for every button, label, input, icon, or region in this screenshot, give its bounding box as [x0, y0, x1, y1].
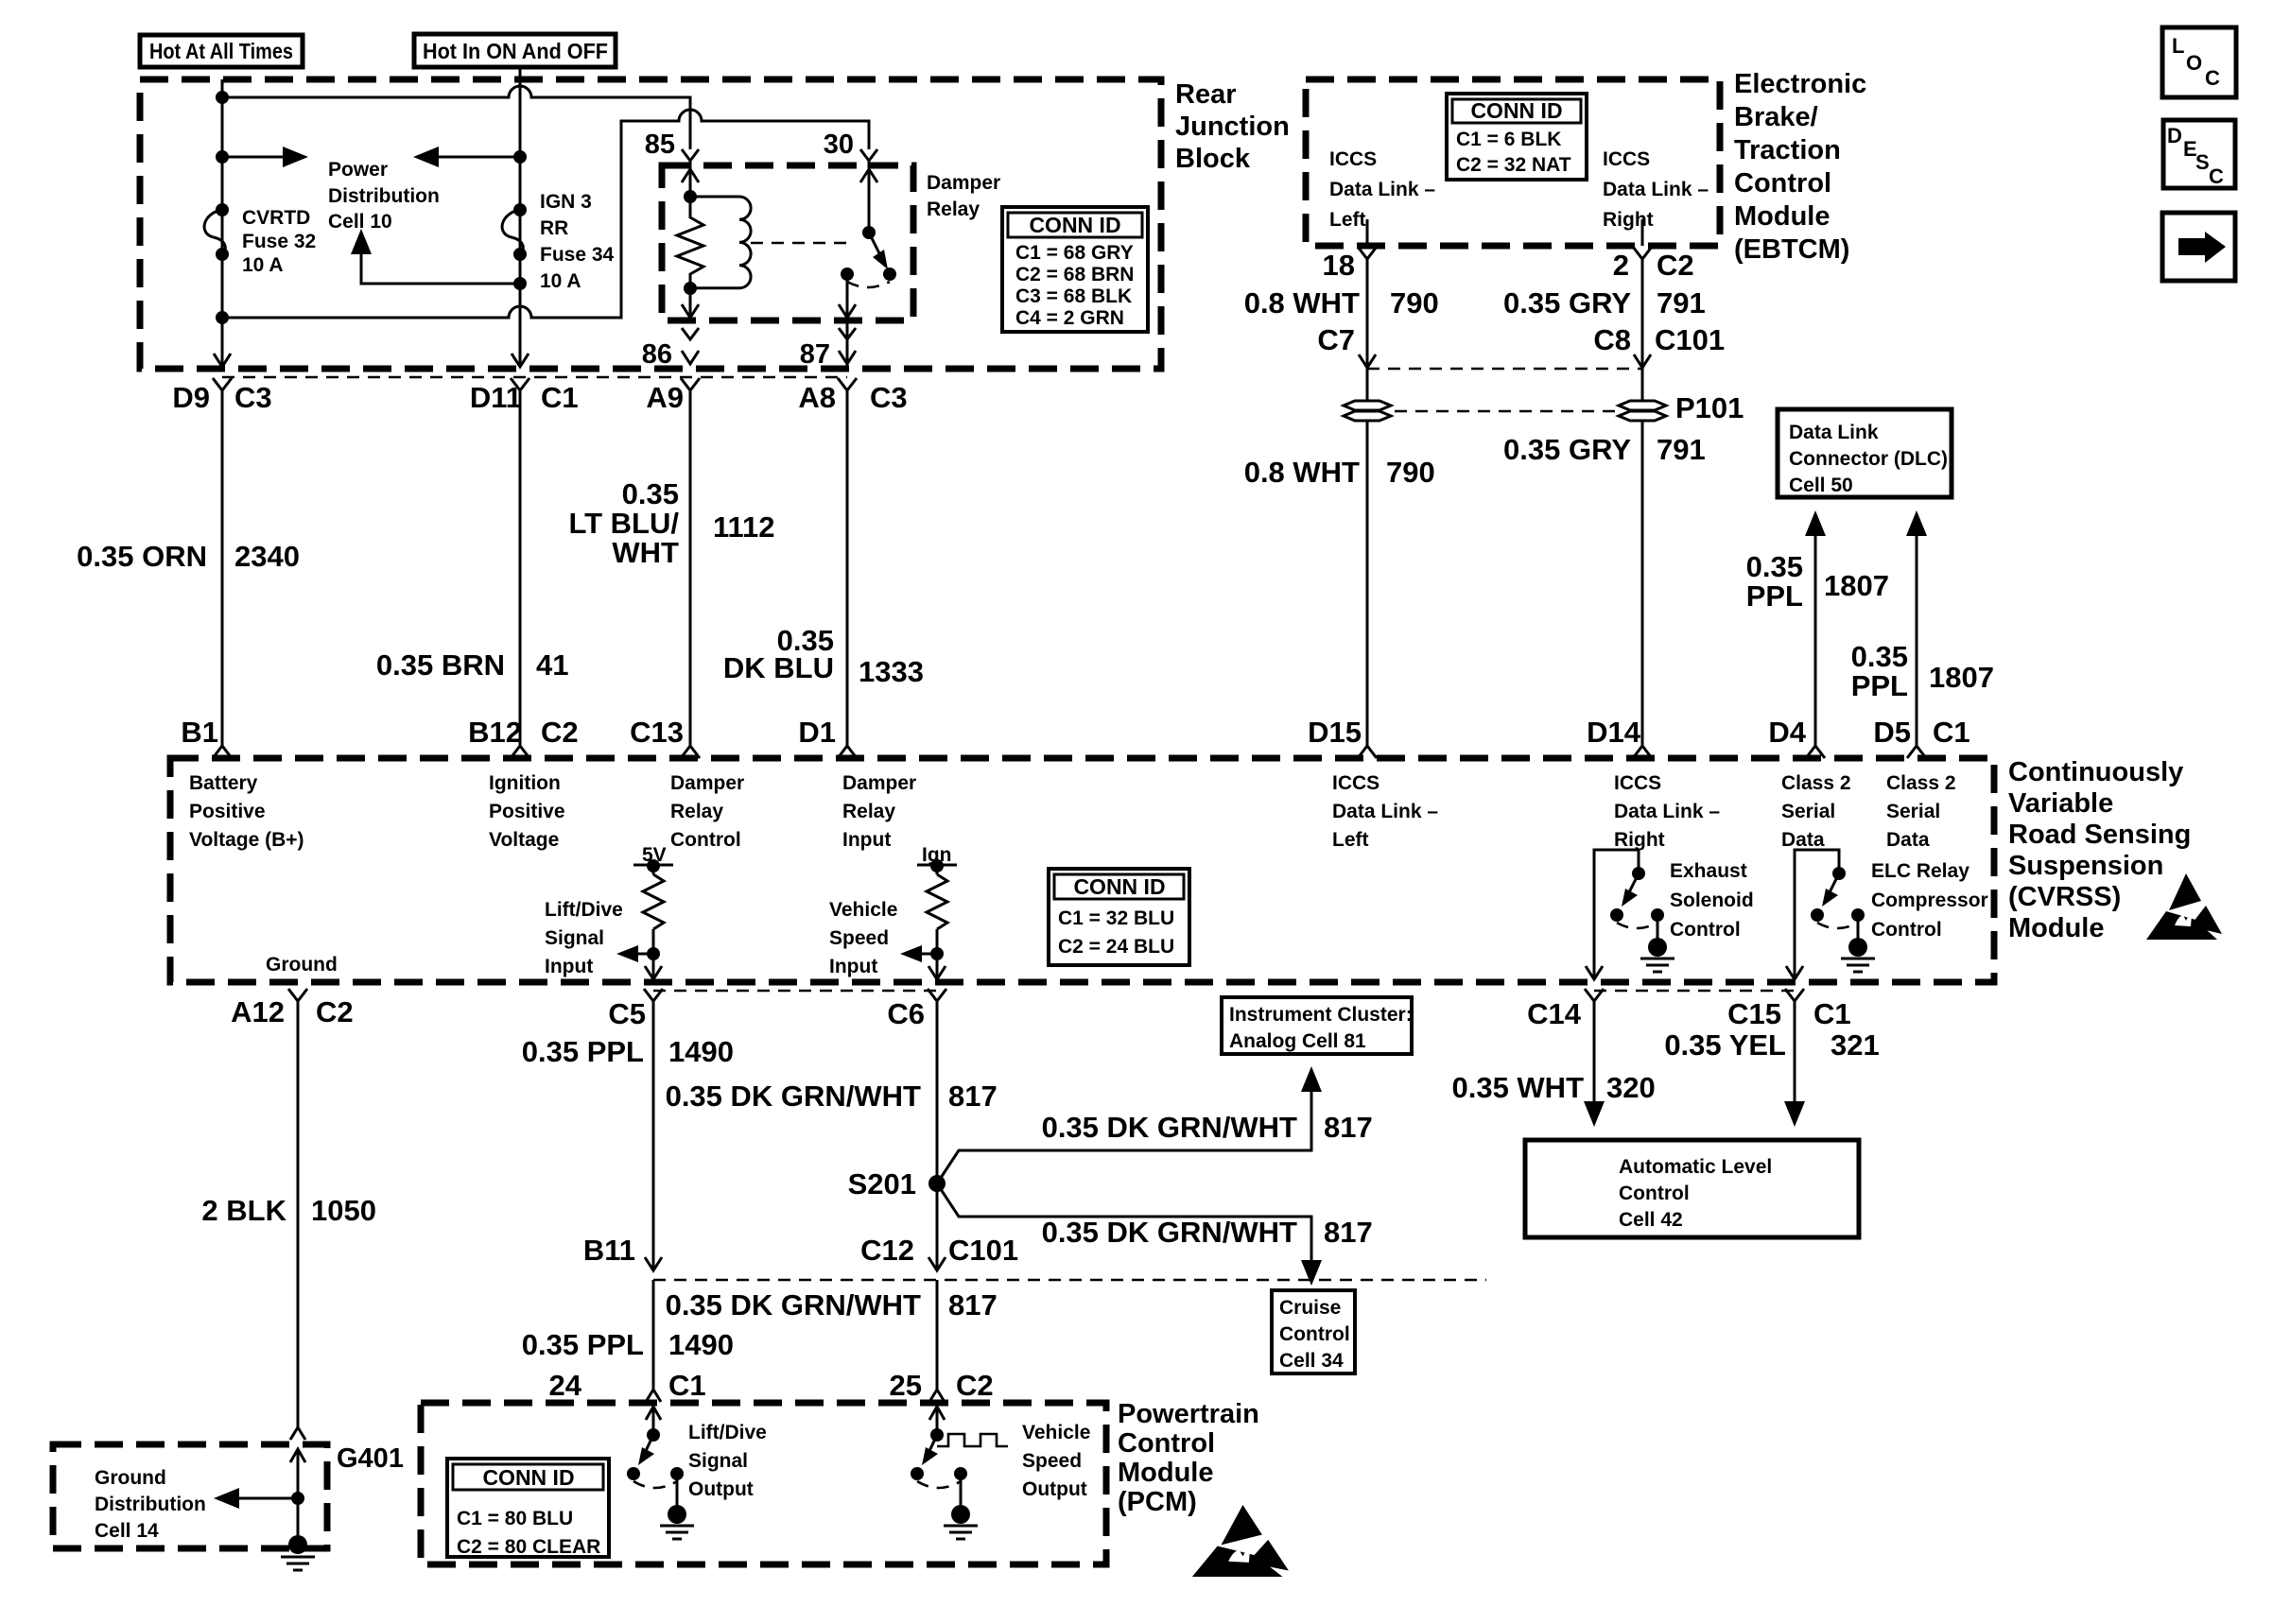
svg-text:Serial: Serial — [1886, 801, 1940, 822]
svg-text:86: 86 — [642, 339, 672, 370]
lift/dive switch pivot — [647, 1428, 660, 1442]
svg-text:Left: Left — [1332, 829, 1369, 851]
ELC switch stationary contact — [1851, 908, 1865, 922]
svg-text:Right: Right — [1603, 209, 1654, 231]
connector A at CVRSS entry (D1) — [838, 746, 857, 758]
connector Y below relay (pin86) — [682, 328, 699, 339]
svg-text:A12: A12 — [231, 995, 285, 1028]
arrow up to Power Distribution Cell 10 — [351, 229, 520, 284]
svg-text:LT BLU/: LT BLU/ — [568, 507, 679, 540]
arrow chevron up at G401 entry — [290, 1449, 305, 1462]
relay resistor — [677, 217, 703, 274]
arrow chevron up inside PCM (vss) — [929, 1407, 945, 1420]
svg-text:C1: C1 — [668, 1369, 706, 1402]
wire stub: EBTCM pin 2 — [1641, 219, 1644, 246]
svg-text:Data Link: Data Link — [1789, 422, 1879, 443]
svg-text:CONN ID: CONN ID — [482, 1465, 574, 1490]
svg-text:0.35: 0.35 — [622, 477, 679, 510]
wire: ICCS data link left 790 — [1366, 259, 1369, 747]
svg-text:Fuse 34: Fuse 34 — [540, 244, 615, 266]
svg-text:C5: C5 — [608, 997, 646, 1030]
arrow reference box — [2162, 213, 2235, 281]
svg-text:ICCS: ICCS — [1614, 772, 1661, 794]
ELC switch armature — [1822, 873, 1839, 907]
wire: battery B+ run to CVRSS — [221, 390, 224, 747]
svg-text:A8: A8 — [798, 381, 836, 414]
connector V (D11|C1) — [511, 378, 529, 390]
svg-text:Junction: Junction — [1175, 112, 1290, 142]
junction: line1 tap on battery wire — [216, 91, 229, 104]
svg-text:Cell 50: Cell 50 — [1789, 475, 1853, 496]
arrow chevron at C15 exit — [1786, 966, 1803, 979]
svg-text:Right: Right — [1614, 829, 1665, 851]
svg-text:Module: Module — [1734, 201, 1831, 232]
svg-text:790: 790 — [1390, 286, 1439, 320]
svg-text:Control: Control — [1871, 919, 1942, 941]
svg-text:10 A: 10 A — [540, 270, 581, 292]
harness connector dashed line below RJB — [222, 376, 847, 379]
Automatic Level Control box — [1525, 1140, 1859, 1237]
svg-text:817: 817 — [1324, 1111, 1373, 1144]
label box: Hot In ON And OFF — [414, 34, 616, 67]
vss switch stationary contact — [954, 1467, 967, 1480]
svg-text:ICCS: ICCS — [1329, 148, 1377, 170]
svg-text:0.35 GRY: 0.35 GRY — [1503, 286, 1631, 320]
svg-text:1490: 1490 — [668, 1328, 734, 1361]
CONN ID table (EBTCM) — [1447, 94, 1587, 180]
ELC switch dashed throw arc — [1817, 923, 1858, 928]
junction: coil bottom — [684, 282, 697, 295]
svg-text:2: 2 — [1613, 249, 1629, 282]
svg-text:25: 25 — [890, 1369, 922, 1402]
svg-text:817: 817 — [948, 1080, 998, 1113]
svg-text:D15: D15 — [1308, 716, 1362, 749]
svg-text:C4 = 2 GRN: C4 = 2 GRN — [1015, 307, 1124, 329]
relay switch pivot — [862, 226, 876, 239]
svg-text:Cell 14: Cell 14 — [95, 1520, 159, 1542]
svg-text:Module: Module — [1118, 1458, 1214, 1488]
svg-text:C: C — [2205, 66, 2220, 90]
arrow chevron at C14 exit — [1586, 966, 1603, 979]
svg-text:(EBTCM): (EBTCM) — [1734, 234, 1849, 265]
svg-text:PPL: PPL — [1851, 669, 1908, 702]
connector A at CVRSS entry (D5|C1) — [1907, 746, 1926, 758]
svg-text:87: 87 — [800, 339, 830, 370]
svg-text:Ignition: Ignition — [489, 772, 561, 794]
wire: damper relay input run to CVRSS — [846, 390, 849, 747]
svg-text:Control: Control — [1279, 1323, 1350, 1345]
svg-text:L: L — [2172, 34, 2184, 58]
svg-text:Control: Control — [1734, 168, 1831, 199]
junction: coil top — [684, 190, 697, 203]
exhaust solenoid driver wire (C14) — [1594, 850, 1639, 979]
wire: lift/dive signal 1490 lower run — [652, 1280, 655, 1390]
wire: exhaust solenoid 320 to ALC — [1584, 1001, 1605, 1127]
wire: ignition run to CVRSS — [519, 390, 522, 747]
svg-text:1333: 1333 — [859, 655, 924, 688]
svg-text:10 A: 10 A — [242, 254, 284, 276]
svg-text:D11: D11 — [470, 381, 522, 414]
svg-text:C7: C7 — [1317, 323, 1355, 356]
wire: battery feed vertical (fuse 32 branch) — [221, 79, 224, 367]
svg-text:PPL: PPL — [1746, 579, 1803, 613]
connector V (D9|C3) — [213, 378, 232, 390]
arrow chevron at B11 — [645, 1257, 662, 1270]
label box: Hot At All Times — [140, 35, 303, 67]
LOC reference box — [2162, 27, 2236, 97]
CONN ID table (Rear Junction Block) — [1002, 207, 1148, 332]
connector plane dashed line C101 (EBTCM side) — [1367, 368, 1642, 371]
svg-text:Suspension: Suspension — [2008, 851, 2163, 881]
arrow chevron at C6 exit — [928, 966, 946, 979]
svg-text:791: 791 — [1657, 286, 1706, 320]
svg-text:Control: Control — [1619, 1183, 1690, 1204]
svg-text:C1: C1 — [1813, 997, 1851, 1030]
svg-text:Serial: Serial — [1781, 801, 1835, 822]
arrow to Power Distribution (left) — [413, 147, 520, 167]
svg-text:Brake/: Brake/ — [1734, 102, 1818, 132]
splice S201 — [928, 1175, 946, 1192]
svg-text:C2 = 24 BLU: C2 = 24 BLU — [1058, 936, 1174, 958]
connector V (C5) — [644, 989, 663, 1001]
svg-text:Class 2: Class 2 — [1781, 772, 1851, 794]
svg-text:C2: C2 — [316, 995, 354, 1028]
svg-text:1807: 1807 — [1929, 661, 1994, 694]
relay coil branch wire — [689, 165, 692, 218]
connector A at CVRSS entry (C13) — [681, 746, 700, 758]
svg-text:0.35 DK GRN/WHT: 0.35 DK GRN/WHT — [666, 1080, 921, 1113]
in-line connector P101 right half — [1619, 401, 1666, 421]
svg-text:Vehicle: Vehicle — [829, 899, 897, 921]
svg-text:P101: P101 — [1675, 391, 1744, 424]
lift/dive switch dashed throw arc — [633, 1481, 677, 1488]
svg-text:Positive: Positive — [489, 801, 565, 822]
svg-text:Block: Block — [1175, 144, 1251, 174]
svg-text:Electronic: Electronic — [1734, 69, 1866, 99]
svg-text:0.35 DK GRN/WHT: 0.35 DK GRN/WHT — [666, 1288, 921, 1322]
svg-text:0.35 PPL: 0.35 PPL — [522, 1035, 644, 1068]
arrow chevron up inside PCM (lift/dive) — [646, 1407, 661, 1420]
connector V (C15|C1) — [1785, 989, 1804, 1001]
svg-text:RR: RR — [540, 217, 568, 239]
svg-text:WHT: WHT — [612, 536, 679, 569]
connector A at CVRSS entry (D4) — [1806, 746, 1825, 758]
svg-text:Voltage (B+): Voltage (B+) — [189, 829, 304, 851]
ground symbol (exhaust solenoid driver) — [1640, 915, 1674, 972]
svg-text:D: D — [2167, 124, 2182, 147]
ESD symbol (CVRSS) — [2146, 873, 2222, 940]
vehicle speed pull-up resistor R-VS — [917, 859, 957, 979]
svg-text:DK BLU: DK BLU — [723, 651, 834, 684]
svg-text:0.35 DK GRN/WHT: 0.35 DK GRN/WHT — [1042, 1111, 1297, 1144]
svg-text:Control: Control — [1670, 919, 1741, 941]
ESD symbol (PCM) — [1192, 1505, 1289, 1577]
svg-text:Exhaust: Exhaust — [1670, 860, 1747, 882]
svg-text:ICCS: ICCS — [1332, 772, 1379, 794]
svg-text:Automatic Level: Automatic Level — [1619, 1156, 1772, 1178]
svg-text:24: 24 — [549, 1369, 582, 1402]
svg-text:Fuse 32: Fuse 32 — [242, 231, 316, 252]
svg-text:C13: C13 — [630, 716, 684, 749]
arrow chevron at RJB exit (pin86) — [682, 351, 699, 364]
svg-text:Data: Data — [1781, 829, 1825, 851]
svg-text:C1 = 6 BLK: C1 = 6 BLK — [1456, 129, 1561, 150]
arrow chevron up inside relay (pin85) — [682, 169, 699, 182]
svg-text:B1: B1 — [181, 716, 218, 749]
svg-text:30: 30 — [824, 130, 854, 160]
wire: S201 branch to instrument cluster — [937, 1066, 1322, 1183]
arrow chevron at C8 — [1634, 354, 1651, 368]
svg-text:A9: A9 — [646, 381, 684, 414]
svg-text:Cell 34: Cell 34 — [1279, 1350, 1344, 1372]
svg-text:C1 = 68 GRY: C1 = 68 GRY — [1015, 242, 1134, 264]
Rear Junction Block dashed box — [140, 79, 1161, 369]
svg-text:Speed: Speed — [1022, 1450, 1082, 1472]
ground symbol (vss output) — [944, 1474, 978, 1539]
ELC switch moving contact — [1811, 908, 1824, 922]
wire: lift/dive signal 1490 upper run — [652, 1001, 655, 1270]
arrow chevron at C12 — [928, 1257, 946, 1270]
svg-text:Input: Input — [545, 956, 593, 977]
Data Link Connector (DLC) box — [1778, 409, 1952, 497]
svg-text:Solenoid: Solenoid — [1670, 890, 1754, 911]
relay switch dashed throw arc — [847, 282, 890, 287]
svg-text:Instrument Cluster:: Instrument Cluster: — [1229, 1004, 1413, 1026]
arrow to Ground Distribution (left) — [214, 1488, 298, 1509]
svg-text:C101: C101 — [1655, 323, 1725, 356]
svg-text:Lift/Dive: Lift/Dive — [688, 1422, 767, 1443]
arrow chevron at RJB exit (pin87) — [839, 351, 856, 364]
svg-text:C3: C3 — [870, 381, 908, 414]
wire: ELC relay 321 to ALC — [1784, 1001, 1805, 1127]
svg-text:Powertrain: Powertrain — [1118, 1399, 1259, 1429]
connector V (C6) — [928, 989, 946, 1001]
dashed pair link at P101 — [1395, 410, 1615, 413]
vss switch armature — [922, 1435, 938, 1465]
svg-text:321: 321 — [1831, 1028, 1880, 1062]
svg-text:0.35: 0.35 — [1851, 640, 1908, 673]
svg-text:C12: C12 — [860, 1234, 914, 1267]
svg-text:Traction: Traction — [1734, 135, 1841, 165]
svg-text:0.35: 0.35 — [1746, 550, 1803, 583]
connector Y below relay (pin87) — [839, 328, 856, 339]
vss switch pivot — [930, 1428, 944, 1442]
exhaust switch moving contact — [1610, 908, 1623, 922]
arrow: Lift/Dive Signal Input (left) — [616, 945, 653, 962]
svg-text:Distribution: Distribution — [95, 1494, 206, 1515]
connector Y at pin 85 — [682, 149, 699, 166]
svg-text:C3: C3 — [234, 381, 272, 414]
lift/dive pull-up resistor R-LD — [633, 859, 673, 979]
svg-text:S201: S201 — [848, 1167, 916, 1201]
svg-text:817: 817 — [1324, 1216, 1373, 1249]
in-line connector P101 left half — [1344, 401, 1391, 421]
connector A at CVRSS entry (B12|C2) — [511, 746, 529, 758]
svg-text:0.35 GRY: 0.35 GRY — [1503, 433, 1631, 466]
svg-text:CONN ID: CONN ID — [1029, 213, 1120, 237]
relay coil L1 — [690, 197, 751, 288]
exhaust switch stationary contact — [1651, 908, 1664, 922]
connector Y at pin 30 — [860, 149, 877, 166]
connector V (pin 2|C2) — [1633, 247, 1652, 259]
svg-text:Relay: Relay — [670, 801, 723, 822]
ground symbol (ELC relay driver) — [1841, 915, 1875, 972]
relay switch stationary contact — [841, 268, 854, 281]
svg-text:1490: 1490 — [668, 1035, 734, 1068]
arrow chevron at C5 exit — [645, 966, 662, 979]
svg-text:B12: B12 — [468, 716, 522, 749]
arrow chevron at C7 — [1359, 354, 1376, 368]
svg-text:C3 = 68 BLK: C3 = 68 BLK — [1015, 285, 1132, 307]
svg-text:Data Link –: Data Link – — [1329, 179, 1435, 200]
connector A at G401 — [290, 1427, 305, 1440]
svg-text:Output: Output — [688, 1478, 754, 1500]
svg-text:Input: Input — [829, 956, 877, 977]
svg-text:Rear: Rear — [1175, 79, 1237, 110]
wire: ICCS data link right 791 — [1641, 259, 1644, 747]
svg-text:0.8 WHT: 0.8 WHT — [1244, 286, 1360, 320]
junction: vehicle speed node — [930, 947, 944, 960]
svg-text:Hot In ON And OFF: Hot In ON And OFF — [423, 39, 608, 63]
svg-text:Signal: Signal — [545, 927, 604, 949]
svg-text:1807: 1807 — [1824, 569, 1889, 602]
ground wire inside G401 — [297, 1449, 300, 1539]
relay switch common wire (pin30) — [868, 165, 871, 233]
connector plane dashed line C101 (PCM side) — [653, 1279, 1486, 1282]
connector A at CVRSS entry (D14) — [1633, 746, 1652, 758]
ELC relay driver wire (C15) — [1795, 850, 1839, 979]
svg-text:0.35 WHT: 0.35 WHT — [1451, 1071, 1584, 1104]
svg-text:C2: C2 — [956, 1369, 994, 1402]
svg-text:D5: D5 — [1873, 716, 1911, 749]
svg-text:Connector (DLC): Connector (DLC) — [1789, 448, 1948, 470]
svg-text:IGN 3: IGN 3 — [540, 191, 592, 213]
wire: vehicle speed 817 upper run — [936, 1001, 939, 1270]
lift/dive switch armature — [638, 1435, 654, 1465]
vehicle speed output switch wire — [936, 1403, 939, 1435]
svg-text:Compressor: Compressor — [1871, 890, 1988, 911]
fuse F32 (CVRTD Fuse 32 10A) — [204, 203, 229, 261]
svg-text:Hot At All Times: Hot At All Times — [149, 39, 293, 63]
relay switch moving contact — [883, 268, 896, 281]
svg-text:1050: 1050 — [311, 1194, 376, 1227]
connector A at CVRSS entry (D15) — [1358, 746, 1377, 758]
connector V (A8|C3) — [838, 378, 857, 390]
arrow chevron up inside relay (pin30) — [860, 169, 877, 182]
svg-text:Road Sensing: Road Sensing — [2008, 820, 2191, 850]
Damper Relay dashed box — [662, 165, 913, 320]
svg-text:C1 = 32 BLU: C1 = 32 BLU — [1058, 907, 1174, 929]
svg-text:0.35 DK GRN/WHT: 0.35 DK GRN/WHT — [1042, 1216, 1297, 1249]
svg-text:Analog Cell 81: Analog Cell 81 — [1229, 1030, 1366, 1052]
svg-text:(PCM): (PCM) — [1118, 1487, 1197, 1517]
connector V (A12|C2) — [288, 989, 307, 1001]
square wave symbol — [937, 1434, 1008, 1446]
svg-text:C2 = 80 CLEAR: C2 = 80 CLEAR — [457, 1536, 600, 1558]
EBTCM dashed box — [1306, 79, 1720, 246]
svg-text:C14: C14 — [1527, 997, 1582, 1030]
svg-text:CVRTD: CVRTD — [242, 207, 310, 229]
svg-text:Data Link –: Data Link – — [1332, 801, 1438, 822]
svg-text:Cruise: Cruise — [1279, 1297, 1341, 1319]
harness connector dashed line below CVRSS (right) — [1594, 990, 1795, 993]
svg-text:ELC Relay: ELC Relay — [1871, 860, 1969, 882]
svg-text:C1: C1 — [541, 381, 579, 414]
svg-text:C2 = 32 NAT: C2 = 32 NAT — [1456, 154, 1571, 176]
connector V (pin 18) — [1358, 247, 1377, 259]
junction: power distribution tap on ignition wire — [513, 150, 527, 164]
svg-text:Control: Control — [670, 829, 741, 851]
PCM dashed box — [421, 1403, 1106, 1564]
svg-text:18: 18 — [1323, 249, 1355, 282]
wire: ignition feed vertical (fuse 34 branch) — [519, 67, 522, 367]
junction: lift/dive signal node — [647, 947, 660, 960]
wire: ground 1050 run to G401 — [297, 1001, 300, 1427]
relay switch armature — [869, 233, 888, 269]
svg-text:ICCS: ICCS — [1603, 148, 1650, 170]
CVRSS module dashed box — [170, 758, 1994, 982]
svg-text:C101: C101 — [948, 1234, 1018, 1267]
svg-text:41: 41 — [536, 648, 568, 682]
svg-text:0.35 BRN: 0.35 BRN — [376, 648, 505, 682]
arrow chevron down at RJB exit (D11) — [512, 354, 529, 367]
wire: class 2 serial data D5 to DLC — [1906, 510, 1927, 747]
harness connector dashed line below CVRSS (left) — [653, 990, 937, 993]
svg-text:Ground: Ground — [95, 1467, 166, 1489]
svg-text:G401: G401 — [337, 1443, 404, 1474]
svg-text:790: 790 — [1386, 456, 1435, 489]
svg-text:C15: C15 — [1727, 997, 1781, 1030]
wire: vehicle speed 817 lower run — [936, 1280, 939, 1390]
svg-text:Data Link –: Data Link – — [1603, 179, 1709, 200]
svg-text:D9: D9 — [172, 381, 210, 414]
svg-text:817: 817 — [948, 1288, 998, 1322]
exhaust switch pivot — [1632, 867, 1645, 880]
svg-text:C8: C8 — [1593, 323, 1631, 356]
svg-text:Left: Left — [1329, 209, 1366, 231]
svg-text:Continuously: Continuously — [2008, 757, 2183, 787]
lift/dive switch moving contact — [627, 1467, 640, 1480]
lift/dive switch stationary contact — [670, 1467, 684, 1480]
svg-text:Damper: Damper — [670, 772, 744, 794]
svg-text:Distribution: Distribution — [328, 185, 440, 207]
arrow chevron down at RJB exit (D9) — [214, 354, 231, 367]
connector A at CVRSS entry (B1) — [213, 746, 232, 758]
svg-text:Data Link –: Data Link – — [1614, 801, 1720, 822]
CONN ID table (PCM) — [447, 1459, 609, 1558]
vss switch moving contact — [911, 1467, 924, 1480]
svg-text:S: S — [2195, 150, 2210, 174]
arrow chevron down inside relay (pin87) — [839, 304, 856, 318]
svg-text:C: C — [2209, 164, 2224, 188]
svg-text:Relay: Relay — [927, 199, 980, 220]
svg-text:Power: Power — [328, 159, 388, 181]
svg-text:C6: C6 — [887, 997, 925, 1030]
svg-text:Input: Input — [842, 829, 891, 851]
ground symbol (lift/dive output) — [660, 1474, 694, 1539]
svg-text:Positive: Positive — [189, 801, 266, 822]
svg-text:CONN ID: CONN ID — [1073, 874, 1165, 899]
svg-text:C2: C2 — [541, 716, 579, 749]
svg-text:2340: 2340 — [234, 540, 300, 573]
wire: class 2 serial data D4 to DLC — [1805, 510, 1826, 747]
wire: line3/line2 feed from battery wire to relay pin 30 (hops ignition wire and pin85 wire) — [222, 110, 869, 318]
connector V (C14) — [1585, 989, 1604, 1001]
relay actuation dashed link — [751, 242, 854, 245]
svg-text:320: 320 — [1606, 1071, 1656, 1104]
wire: damper relay control run to CVRSS — [689, 390, 692, 747]
svg-text:Class 2: Class 2 — [1886, 772, 1956, 794]
